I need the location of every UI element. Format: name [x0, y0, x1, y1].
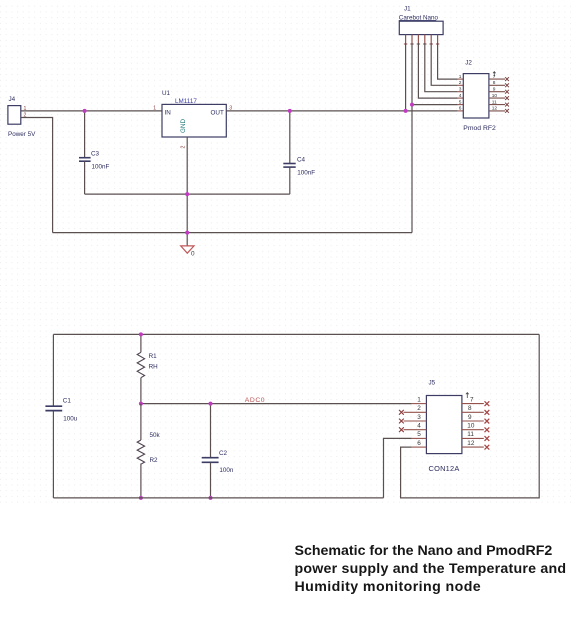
- J5 pin7 arrow mark: [466, 393, 469, 398]
- J2 left pin stubs: [458, 79, 464, 111]
- svg-text:J5: J5: [429, 380, 436, 387]
- svg-text:1: 1: [459, 74, 462, 80]
- svg-text:100n: 100n: [219, 467, 234, 474]
- pin 2 label U1: [180, 146, 186, 149]
- svg-text:J4: J4: [9, 96, 16, 103]
- wire: ground bottom rail: [53, 232, 412, 234]
- svg-text:Power 5V: Power 5V: [8, 131, 36, 138]
- wire: J5 pin5 to ground rail: [384, 438, 412, 498]
- pin 3 label U1: [229, 106, 232, 112]
- svg-text:C3: C3: [91, 151, 100, 158]
- svg-text:6: 6: [417, 440, 421, 447]
- caption text: [295, 543, 567, 595]
- pin 2 label J4: [24, 113, 27, 119]
- resistor R1 RH: [137, 334, 158, 403]
- svg-text:R2: R2: [150, 457, 159, 464]
- svg-text:3: 3: [459, 86, 462, 92]
- svg-text:CON12A: CON12A: [429, 464, 460, 473]
- svg-text:12: 12: [492, 106, 498, 112]
- svg-text:GND: GND: [180, 119, 187, 133]
- svg-text:C2: C2: [219, 450, 228, 457]
- ground symbol 0: [181, 246, 195, 258]
- junction R1 top rail: [139, 332, 143, 336]
- J2 right pin numbers: [492, 74, 498, 112]
- J5 left pin numbers: [417, 396, 421, 447]
- no-connect X marks J5 right: [485, 401, 490, 449]
- regulator U1 LM1117: [162, 90, 226, 137]
- svg-text:11: 11: [492, 99, 497, 105]
- svg-text:11: 11: [467, 431, 474, 438]
- wire: bottom ground rail (left): [53, 497, 383, 499]
- wire: J1 pin1 to 3V3 rail: [405, 43, 407, 111]
- svg-text:RH: RH: [149, 363, 159, 370]
- svg-text:2: 2: [180, 146, 186, 149]
- wire: J1 pin2 ground drop: [411, 43, 413, 233]
- svg-text:OUT: OUT: [211, 110, 224, 117]
- svg-text:Schematic for the Nano and Pmo: Schematic for the Nano and PmodRF2: [295, 543, 553, 559]
- wire: ADC0 rail: [141, 403, 412, 405]
- connector J1 Carebot Nano: [399, 6, 443, 35]
- svg-text:J2: J2: [465, 60, 472, 67]
- no-connect X marks J5 left: [399, 410, 404, 432]
- svg-text:12: 12: [467, 440, 475, 447]
- wire: U1 GND pin down to ground: [186, 137, 188, 246]
- svg-text:R1: R1: [149, 353, 158, 360]
- svg-text:IN: IN: [165, 110, 172, 117]
- wire: J5 pin6 VCC loop: [401, 334, 540, 498]
- svg-text:1: 1: [153, 106, 156, 112]
- junction U1 GND / C rail: [185, 192, 189, 196]
- junction J1 pin1 / 3V3 rail: [404, 109, 408, 113]
- svg-text:100nF: 100nF: [92, 164, 110, 171]
- svg-text:power supply and the Temperatu: power supply and the Temperature and: [295, 561, 567, 577]
- svg-text:C4: C4: [297, 157, 306, 164]
- wire: bottom-section top rail: [53, 333, 539, 335]
- J2 right pin wires: [489, 79, 505, 111]
- svg-text:J1: J1: [404, 6, 411, 13]
- pin 1 label U1: [153, 106, 156, 112]
- J2 left pin numbers: [459, 74, 462, 112]
- J5 left pin wires: [404, 404, 427, 448]
- svg-text:U1: U1: [162, 90, 171, 97]
- no-connect X marks J2: [505, 77, 509, 113]
- junction R2 bottom: [139, 496, 143, 500]
- svg-text:9: 9: [468, 414, 472, 421]
- resistor R2 50k: [137, 404, 160, 498]
- connector J5 CON12A: [426, 380, 462, 474]
- wire: J1 pin3 to J2 pin4: [418, 43, 457, 98]
- capacitor C4: [283, 111, 315, 194]
- svg-text:5: 5: [459, 99, 462, 105]
- wire: J1 pin6 to J2 pin1: [438, 43, 458, 79]
- svg-text:8: 8: [493, 80, 496, 86]
- junction J2 pin5 branch: [410, 103, 414, 107]
- wire: U1 OUT 3V3 rail to J2 pin 6: [226, 110, 457, 112]
- svg-text:4: 4: [417, 423, 421, 430]
- junction C2 bottom: [209, 496, 213, 500]
- svg-text:Pmod RF2: Pmod RF2: [463, 125, 496, 132]
- wire: J4 pin1 to U1 IN (5V rail): [21, 110, 162, 112]
- svg-text:6: 6: [459, 106, 462, 112]
- svg-text:2: 2: [459, 80, 462, 86]
- svg-text:2: 2: [417, 405, 421, 412]
- svg-text:3: 3: [417, 414, 421, 421]
- wire: left vertical lower: [52, 411, 54, 498]
- net label ADC0: [245, 397, 265, 404]
- J1 pin stubs: [406, 35, 438, 44]
- J5 right pin numbers: [467, 396, 475, 447]
- J2 pin7 arrow mark: [493, 72, 496, 77]
- pin 1 label J4: [24, 106, 27, 112]
- svg-text:50k: 50k: [150, 432, 161, 439]
- junction C3 on 5V rail: [83, 109, 87, 113]
- svg-text:1: 1: [417, 396, 421, 403]
- wire: branch to J2 pin5: [412, 104, 458, 106]
- svg-text:Humidity monitoring node: Humidity monitoring node: [295, 579, 482, 595]
- junction C4 on 3V3 rail: [288, 109, 292, 113]
- svg-text:0: 0: [191, 251, 195, 258]
- capacitor C2: [202, 404, 234, 498]
- connector J2 Pmod RF2: [463, 60, 496, 133]
- wire: left vertical upper: [52, 334, 54, 406]
- capacitor C3: [79, 111, 110, 194]
- wire: J1 pin5 to J2 pin2: [431, 43, 458, 85]
- svg-text:100u: 100u: [63, 416, 78, 423]
- wire: J1 pin4 to J2 pin3: [425, 43, 458, 92]
- svg-text:10: 10: [492, 93, 498, 99]
- svg-text:8: 8: [468, 405, 472, 412]
- svg-text:7: 7: [470, 396, 474, 403]
- J5 right pin wires: [462, 404, 484, 448]
- svg-text:LM1117: LM1117: [175, 98, 197, 105]
- svg-text:4: 4: [459, 93, 462, 99]
- junction R1/R2/ADC0: [139, 402, 143, 406]
- svg-text:C1: C1: [63, 398, 72, 405]
- svg-text:100nF: 100nF: [297, 170, 315, 177]
- wire: J4 pin2 ground run down: [21, 118, 53, 233]
- junction C2 top: [209, 402, 213, 406]
- capacitor C1: [45, 398, 77, 423]
- connector J4: [8, 96, 36, 138]
- svg-text:10: 10: [467, 423, 475, 430]
- J1 pin number marks: [404, 43, 439, 45]
- svg-text:5: 5: [417, 431, 421, 438]
- wire: C3-C4 lower rail: [85, 193, 290, 195]
- svg-text:9: 9: [493, 86, 496, 92]
- svg-text:ADC0: ADC0: [245, 397, 265, 404]
- junction U1 GND / bottom rail: [185, 231, 189, 235]
